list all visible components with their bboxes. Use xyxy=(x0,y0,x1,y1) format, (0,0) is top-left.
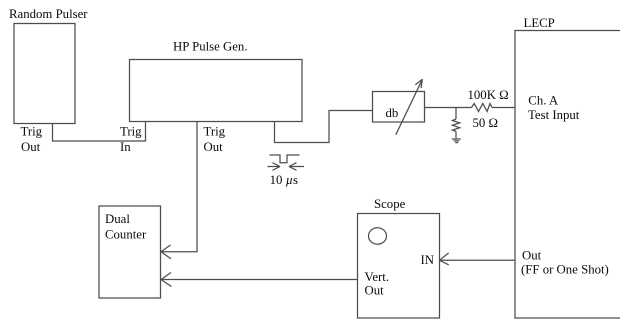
svg-text:50 Ω: 50 Ω xyxy=(473,116,499,130)
svg-text:HP Pulse Gen.: HP Pulse Gen. xyxy=(173,40,248,54)
wire LECP Out to Scope IN xyxy=(440,259,515,261)
svg-text:Out: Out xyxy=(204,140,224,154)
svg-text:Trig: Trig xyxy=(120,125,142,139)
resistor 50 ohm xyxy=(453,119,460,132)
box Dual Counter xyxy=(99,206,161,298)
wire resistor to ground xyxy=(455,132,457,140)
svg-text:Trig: Trig xyxy=(204,125,226,139)
svg-text:LECP: LECP xyxy=(524,16,555,30)
box Random Pulser xyxy=(14,24,75,124)
svg-text:Scope: Scope xyxy=(374,197,406,211)
box Scope xyxy=(358,214,440,319)
box HP Pulse Gen. xyxy=(130,60,303,122)
svg-text:Test Input: Test Input xyxy=(528,108,580,122)
svg-text:db: db xyxy=(386,106,399,120)
arrowhead into Scope IN xyxy=(440,253,449,265)
svg-text:Out: Out xyxy=(365,284,385,298)
wire attenuator output to LECP xyxy=(425,107,515,109)
svg-text:10 µs: 10 µs xyxy=(270,173,298,187)
svg-text:In: In xyxy=(120,140,131,154)
svg-text:Random Pulser: Random Pulser xyxy=(9,7,88,21)
svg-text:100K Ω: 100K Ω xyxy=(468,88,509,102)
svg-text:Ch. A: Ch. A xyxy=(528,93,559,107)
pulse width arrow right xyxy=(289,163,304,171)
wire HP Trig Out down to Dual Counter xyxy=(162,122,198,252)
svg-text:Trig: Trig xyxy=(21,125,43,139)
scope CRT circle xyxy=(369,228,387,244)
box LECP xyxy=(515,31,620,319)
arrowhead into Dual Counter (top) xyxy=(161,245,171,259)
svg-text:(FF or One Shot): (FF or One Shot) xyxy=(521,262,609,276)
arrowhead into Dual Counter (bottom) xyxy=(161,273,172,287)
svg-text:Counter: Counter xyxy=(105,228,147,242)
svg-text:Out: Out xyxy=(522,249,542,263)
wire junction to 50 ohm resistor xyxy=(455,108,457,120)
pulse width arrow left xyxy=(268,163,281,171)
svg-text:IN: IN xyxy=(421,253,435,267)
svg-text:Dual: Dual xyxy=(105,212,130,226)
svg-text:Out: Out xyxy=(21,140,41,154)
wire Scope Vert Out to Dual Counter xyxy=(162,279,358,281)
wire HP output to attenuator xyxy=(275,111,373,143)
resistor 100K ohm xyxy=(472,104,493,112)
wire Random Pulser Trig Out to HP Trig In xyxy=(53,122,146,142)
svg-text:Vert.: Vert. xyxy=(365,270,390,284)
ground symbol xyxy=(452,139,461,143)
pulse waveform symbol xyxy=(270,155,300,163)
attenuator box db xyxy=(373,92,425,123)
attenuator variable arrow xyxy=(396,79,423,135)
